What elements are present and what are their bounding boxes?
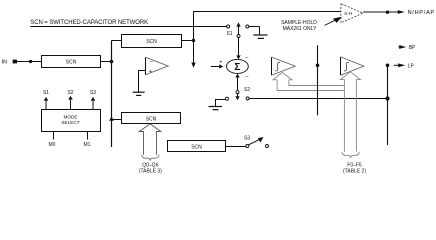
wire: left vertical to Q-network box <box>112 119 122 121</box>
brace F bus <box>342 152 359 158</box>
svg-text:S-H: S-H <box>344 11 352 16</box>
svg-text:SCN: SCN <box>146 39 157 45</box>
resistor-box SCN Q-network (lower left) <box>122 113 181 124</box>
ground at S2 left throw <box>226 97 229 100</box>
wire: box to S3 switch <box>226 146 246 148</box>
ground at op-amp + input <box>139 71 146 93</box>
wire: S3 arrow up <box>91 97 96 101</box>
wire: main left vertical <box>111 41 113 148</box>
svg-text:SCN = SWITCHED-CAPACITOR NETWO: SCN = SWITCHED-CAPACITOR NETWORK <box>30 20 148 26</box>
wire: long BP feedback horizontal <box>249 98 387 100</box>
svg-text:(TABLE 2): (TABLE 2) <box>343 168 366 174</box>
ground after S1 right contact <box>249 26 260 28</box>
wire: SCN box output to vertical <box>101 61 112 63</box>
resistor-box SCN feedback (top) <box>122 35 182 48</box>
node: dot BP feedback junction <box>385 96 389 100</box>
node: dot on output line <box>386 11 389 14</box>
svg-text:S1: S1 <box>43 90 49 96</box>
resistor-box SCN input <box>42 56 101 68</box>
wire: S1 arrow up <box>44 97 49 101</box>
wire: top feedback line to sample-hold <box>194 12 341 68</box>
node: dot on IN wire <box>29 60 32 63</box>
switch S1 (top) <box>227 25 230 28</box>
svg-text:SCN: SCN <box>191 145 202 151</box>
bus hollow arrow F into integrator U3 <box>273 73 345 86</box>
wire: feedback SCN box right to vertical <box>182 40 194 42</box>
svg-text:BP: BP <box>409 45 416 51</box>
svg-text:+: + <box>149 69 152 75</box>
terminal BP <box>398 46 399 48</box>
svg-text:MAX261 ONLY: MAX261 ONLY <box>283 26 317 32</box>
brace Q bus <box>142 155 159 161</box>
svg-text:SCN: SCN <box>66 60 77 66</box>
wire: feedback box left to main left vertical <box>112 40 122 42</box>
svg-text:M0: M0 <box>49 142 56 148</box>
bus hollow arrow Q0-Q6 into Q-network <box>139 124 161 155</box>
wire: title underline continuing to switch S1 <box>30 26 227 28</box>
wire: left input arrow into summer <box>211 66 220 68</box>
integrator U3 <box>271 57 273 75</box>
svg-text:S2: S2 <box>244 87 250 93</box>
svg-text:N/HP/AP: N/HP/AP <box>408 10 435 16</box>
block MODE SELECT <box>42 110 101 132</box>
svg-text:S3: S3 <box>90 90 96 96</box>
svg-text:Σ: Σ <box>234 62 240 73</box>
svg-text:(TABLE 3): (TABLE 3) <box>139 168 162 174</box>
wire: bottom input arrow into summer <box>237 77 239 91</box>
pin M1 <box>87 132 89 140</box>
op-amp U2 (inverting, grounded +) <box>145 57 147 75</box>
pin M0 <box>53 132 55 140</box>
svg-text:S3: S3 <box>244 136 250 142</box>
svg-text:S1: S1 <box>226 31 232 37</box>
svg-text:MODE: MODE <box>63 114 77 119</box>
summing junction U1 <box>227 59 249 73</box>
terminal N/HP/AP <box>398 10 405 14</box>
wire: sample-hold output line <box>363 11 398 13</box>
wire: IN to SCN box <box>17 61 42 63</box>
svg-text:IN: IN <box>2 60 8 66</box>
wire: S1 pole down to summer <box>238 38 240 56</box>
node: dot LP tap <box>386 64 390 68</box>
node: arrowhead down at op-amp output column <box>191 63 195 68</box>
svg-text:SELECT: SELECT <box>61 120 79 125</box>
wire: LP vertical <box>387 65 389 145</box>
svg-text:S2: S2 <box>67 90 73 96</box>
sample-hold U5 (dashed, MAX261 only) <box>341 4 363 23</box>
wire: vertical between integrators <box>317 45 319 115</box>
svg-text:LP: LP <box>408 63 415 69</box>
svg-text:+: + <box>219 59 222 65</box>
node: junction dot feedback SCN to vertical <box>192 39 195 42</box>
node: junction dot IN wire <box>110 60 114 64</box>
node: dot integrator1 output <box>316 64 320 68</box>
svg-text:M1: M1 <box>84 142 91 148</box>
switch S2 (below summer) <box>236 91 239 94</box>
node: junction dot to lower SCN <box>109 116 114 121</box>
bus hollow arrow F into integrator U4 <box>340 72 360 152</box>
terminal LP <box>394 64 399 66</box>
resistor-box SCN LP feedback (bottom middle) <box>168 141 226 152</box>
callout arrow sample-hold <box>325 20 336 25</box>
svg-text:SCN: SCN <box>146 116 157 122</box>
wire: S2 arrow up <box>68 96 73 100</box>
integrator U4 <box>340 57 342 75</box>
